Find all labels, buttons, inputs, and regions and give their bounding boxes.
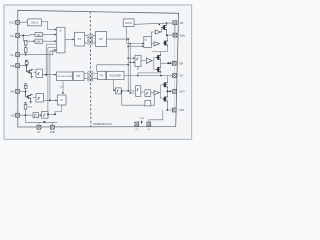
FET low C source to pin R6 xyxy=(167,102,172,110)
gate2 out wire xyxy=(44,99,57,101)
AND gate box xyxy=(57,27,65,53)
svg-text:&: & xyxy=(145,38,147,42)
DECODER box xyxy=(57,72,73,81)
RX box xyxy=(96,32,107,47)
bottom pin pair 1 xyxy=(37,125,41,129)
coupler 2 wires xyxy=(84,74,98,79)
clamp transistor L4 xyxy=(27,66,34,75)
wire UVLO1 out to AND gate xyxy=(42,22,56,30)
svg-text:TX: TX xyxy=(100,73,104,77)
coupler 1 wires xyxy=(85,35,96,43)
svg-text:IN−: IN− xyxy=(10,53,15,57)
input gate box 2 xyxy=(36,94,44,103)
buffer T2 xyxy=(151,43,153,45)
FET low A xyxy=(163,40,168,46)
FET high C xyxy=(163,82,168,88)
schmitt box xyxy=(39,114,41,116)
status bus wire xyxy=(97,65,129,72)
svg-text:GND: GND xyxy=(50,131,56,134)
wires into gate A xyxy=(127,43,143,45)
pin L2 IN+ xyxy=(16,34,20,38)
FET low B xyxy=(156,66,161,72)
svg-text:VSS: VSS xyxy=(140,118,145,120)
MUX box xyxy=(58,95,67,105)
ENCODER bottom vertical to gate C1 xyxy=(112,80,115,91)
svg-text:SD: SD xyxy=(11,114,15,118)
pullup res SD xyxy=(25,109,27,115)
svg-text:UVLO: UVLO xyxy=(31,21,38,25)
FET high B xyxy=(156,54,161,60)
TX2 box xyxy=(98,71,106,79)
pin L1 VCC xyxy=(16,20,20,24)
wire L3 to AND gate xyxy=(20,50,56,55)
pin L5 INA xyxy=(16,89,20,93)
svg-text:INA: INA xyxy=(10,90,15,94)
pin R5 xyxy=(173,89,177,93)
svg-text:OUT: OUT xyxy=(179,90,185,94)
svg-text:NSl6602Q-P3: NSl6602Q-P3 xyxy=(93,122,112,126)
wire L1 to UVLO1 xyxy=(20,21,28,23)
gnd L4 xyxy=(30,75,33,79)
gate C3 box xyxy=(141,91,144,93)
junction on L3 wire xyxy=(25,54,27,56)
feed verticals to channel C xyxy=(127,39,129,91)
svg-text:CLK: CLK xyxy=(60,86,65,88)
gate A box xyxy=(144,37,152,48)
feedback verticals into AND xyxy=(46,44,56,75)
supply rail UVLO2 to pin R1 xyxy=(134,23,173,24)
bottom right loop xyxy=(149,110,163,122)
IC package outline xyxy=(18,10,179,127)
svg-text:INB: INB xyxy=(10,64,15,68)
gate C1 box xyxy=(115,88,121,94)
WK box A xyxy=(35,33,42,37)
svg-text:WK: WK xyxy=(37,41,41,44)
input gate box 1 xyxy=(36,69,43,77)
wire vertical pull-divider xyxy=(22,36,24,42)
pin R6 xyxy=(172,108,176,112)
pin R3 xyxy=(172,61,176,65)
out node to pin R3 xyxy=(161,60,172,68)
svg-text:RX: RX xyxy=(77,74,81,78)
RX2 box xyxy=(73,72,84,81)
junction on L2 wire xyxy=(22,35,24,37)
svg-text:VD: VD xyxy=(179,74,183,78)
svg-text:DT: DT xyxy=(37,131,41,134)
FET high A xyxy=(162,24,167,30)
right pin column connector xyxy=(174,25,176,33)
svg-text:100k: 100k xyxy=(28,107,32,109)
bottom-left loop wire xyxy=(26,115,29,122)
svg-text:VB: VB xyxy=(180,21,184,25)
svg-text:IN+: IN+ xyxy=(10,34,15,38)
ENCODER box xyxy=(107,71,124,79)
UVLO1 box xyxy=(28,19,42,26)
WK box B xyxy=(35,39,42,43)
gnd L5 xyxy=(29,100,32,104)
local rail xyxy=(152,52,168,56)
branch to WK B xyxy=(23,40,34,42)
bottom pin pair 2 xyxy=(135,122,139,126)
svg-text:VSS: VSS xyxy=(179,108,184,112)
junction and label pair2 xyxy=(141,121,143,125)
TX box xyxy=(75,32,85,46)
FET low C xyxy=(163,96,168,102)
resistor R upper xyxy=(24,41,27,46)
pullup res L4 xyxy=(26,64,28,67)
pin R4 xyxy=(173,74,177,78)
svg-text:GaN: GaN xyxy=(180,33,185,37)
svg-text:TX: TX xyxy=(78,37,82,41)
gate C1 out xyxy=(121,90,135,92)
svg-text:OSC/DECODER: OSC/DECODER xyxy=(57,76,73,78)
gate C2 box xyxy=(136,86,141,97)
UVLO2 down vertical xyxy=(126,26,128,43)
buffer T1 xyxy=(151,32,155,39)
wire L2 to WK A xyxy=(20,35,35,36)
small box below C3 xyxy=(145,101,151,106)
out node channel A to pin R2 xyxy=(167,31,173,40)
transformer coupler 2 xyxy=(88,72,94,82)
svg-text:WK: WK xyxy=(37,34,41,37)
resistor R lower xyxy=(24,48,27,53)
gate1 out to DECODER xyxy=(43,74,56,76)
UVLO2 box xyxy=(123,19,134,27)
AND out to TX xyxy=(65,38,73,40)
svg-text:RX: RX xyxy=(99,37,103,41)
svg-text:M: M xyxy=(61,99,63,102)
pullup res L5 xyxy=(25,88,27,91)
schmitt out xyxy=(48,113,55,115)
svg-text:UVLO: UVLO xyxy=(125,21,132,25)
DECODER bottom vertical xyxy=(62,81,64,94)
svg-text:ENCODER: ENCODER xyxy=(110,76,122,78)
pin L4 INB xyxy=(16,64,20,68)
out node to pin R5 xyxy=(167,88,172,96)
WK B out arrow xyxy=(42,40,55,42)
pin L3 IN- xyxy=(16,53,20,57)
driver triangle mid xyxy=(147,58,153,63)
outer page border xyxy=(4,5,192,139)
transformer coupler 1 xyxy=(88,35,94,45)
deglitch box xyxy=(33,113,39,118)
MUX bottom wire xyxy=(55,105,62,114)
junction marker between pair1 xyxy=(43,121,45,123)
pin R2 xyxy=(173,33,177,37)
isolation barrier dashed line xyxy=(89,12,92,127)
WK A out arrow xyxy=(42,34,55,36)
pin L6 SD xyxy=(16,113,20,117)
svg-text:SW: SW xyxy=(179,61,184,65)
ENCODER to pin R4 wire xyxy=(124,75,172,77)
buffer T3 xyxy=(151,92,154,94)
svg-text:VCC: VCC xyxy=(9,21,15,25)
pin R1 xyxy=(173,21,177,25)
clamp transistor L5 xyxy=(26,91,33,100)
RX out wire xyxy=(107,38,129,40)
svg-text:&: & xyxy=(60,29,62,33)
